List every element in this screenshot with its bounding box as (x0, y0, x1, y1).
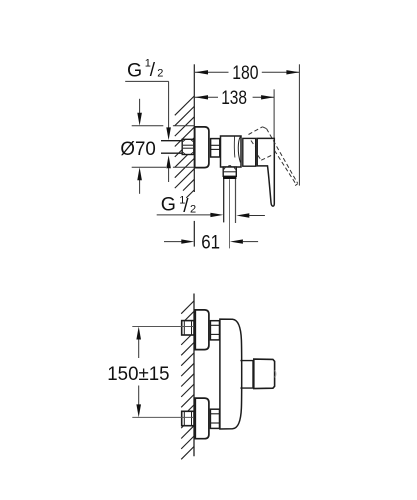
lower escutcheon (bottom view) (195, 398, 209, 439)
mixer body (top view) (221, 136, 242, 167)
dimension 138 (195, 96, 274, 98)
wall face line (bottom view) (193, 294, 195, 457)
svg-text:/: / (150, 60, 156, 81)
upper union nut (bottom view) (210, 321, 219, 340)
wall hatching (bottom view) (181, 301, 194, 459)
cartridge ring (243, 138, 256, 166)
wall hatching (top view) (175, 96, 195, 198)
union hex nut (top view) (211, 139, 220, 157)
dimension d70 extension lines (132, 126, 195, 168)
escutcheon (top view) (195, 127, 209, 168)
right-side arrow pointing left at pipe (236, 213, 249, 217)
lever neck (bottom view) (240, 361, 253, 389)
svg-text:Ø70: Ø70 (120, 139, 155, 160)
G 1/2 lower-left leader arrow (points up at nipple) (166, 155, 171, 168)
outlet shoulder bump (228, 166, 231, 167)
svg-text:G: G (127, 60, 142, 82)
outlet pipe (224, 179, 236, 223)
150 dimension extension / centre lines (132, 327, 194, 418)
G 1/2 bottom leader line with arrow to pipe (157, 214, 212, 216)
outlet nut lower band (223, 176, 236, 179)
dimension 150+-15 (138, 339, 140, 406)
lever handle (closed position) (257, 138, 274, 206)
svg-text:138: 138 (221, 88, 247, 109)
supply nipple pipe (161, 141, 183, 154)
lower inlet hex in wall (182, 411, 194, 425)
dimension d70 arrows (139, 99, 141, 194)
svg-text:150±15: 150±15 (107, 364, 169, 385)
G 1/2 label (bottom, shower outlet) (161, 194, 196, 217)
180 right extension line (298, 64, 300, 185)
upper inlet hex in wall (182, 321, 194, 335)
wall face line (top view, also extension line for 180/138/61) (193, 64, 195, 246)
138 right extension line (273, 89, 275, 138)
svg-text:61: 61 (201, 232, 220, 253)
outlet centre line (229, 179, 231, 248)
svg-text:2: 2 (157, 67, 163, 79)
svg-text:2: 2 (190, 204, 196, 216)
svg-text:G: G (161, 194, 176, 216)
G 1/2 label (top, wall connection) (127, 58, 163, 82)
outlet nut (223, 167, 236, 176)
svg-text:/: / (183, 196, 189, 217)
lower union nut (bottom view) (210, 409, 219, 428)
nipple hex in wall (182, 139, 194, 154)
dimension 180 (195, 71, 299, 73)
upper escutcheon (bottom view) (195, 310, 209, 350)
mixer body (bottom view) (220, 319, 242, 429)
lever phantom (open position, dashed) (249, 127, 298, 186)
G 1/2 top leader (125, 81, 168, 127)
svg-text:180: 180 (232, 63, 258, 84)
lever grip end (bottom view) (254, 359, 276, 388)
dimension 61 (164, 241, 182, 243)
